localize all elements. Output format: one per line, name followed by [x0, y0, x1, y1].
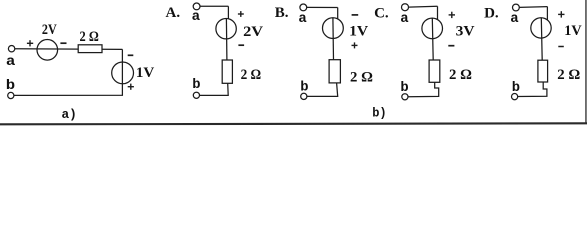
- svg-text:2V: 2V: [42, 22, 57, 38]
- svg-text:a: a: [6, 54, 16, 70]
- svg-text:2 Ω: 2 Ω: [350, 69, 373, 85]
- svg-text:b): b): [372, 106, 386, 121]
- svg-text:a): a): [62, 107, 77, 122]
- svg-text:D.: D.: [484, 6, 499, 22]
- svg-text:1V: 1V: [349, 24, 368, 40]
- svg-text:a: a: [192, 9, 201, 25]
- svg-text:b: b: [192, 77, 200, 93]
- svg-text:b: b: [400, 80, 408, 96]
- svg-text:2 Ω: 2 Ω: [80, 29, 99, 45]
- svg-text:a: a: [298, 11, 307, 27]
- svg-text:C.: C.: [374, 5, 389, 21]
- svg-text:2 Ω: 2 Ω: [557, 67, 580, 83]
- svg-text:b: b: [6, 78, 15, 94]
- svg-text:a: a: [510, 11, 519, 27]
- svg-text:A.: A.: [166, 5, 181, 21]
- svg-text:b: b: [300, 80, 308, 96]
- svg-text:1V: 1V: [564, 23, 582, 39]
- svg-text:2 Ω: 2 Ω: [241, 67, 262, 83]
- svg-text:a: a: [400, 11, 409, 27]
- svg-text:b: b: [512, 80, 520, 96]
- svg-text:2V: 2V: [243, 24, 263, 40]
- svg-text:B.: B.: [275, 5, 289, 21]
- svg-text:2 Ω: 2 Ω: [449, 67, 472, 83]
- svg-text:1V: 1V: [136, 65, 155, 81]
- svg-text:3V: 3V: [456, 24, 475, 40]
